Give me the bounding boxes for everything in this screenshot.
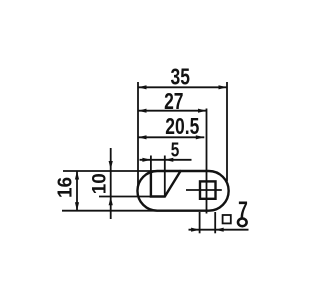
svg-text:20.5: 20.5 xyxy=(165,115,199,140)
dimension line 27 xyxy=(138,110,207,112)
svg-text:10: 10 xyxy=(90,173,111,194)
svg-text:27: 27 xyxy=(164,90,183,115)
notch bottom extension line (y=196.5) for dim 10 xyxy=(99,196,151,198)
digit 6 ring of label xyxy=(238,218,247,226)
bottom extension line (y=210.7) for dim 16 xyxy=(62,210,157,212)
notch recess with slanted wall inside part xyxy=(151,170,181,196)
extension lines below part from square hole edges xyxy=(199,212,201,233)
centerline horizontal of square hole xyxy=(186,189,222,191)
square symbol of label xyxy=(223,215,231,223)
dimension line 5 with outside arrows xyxy=(140,159,192,161)
svg-text:35: 35 xyxy=(170,65,189,90)
top extension line (y=171) for dims 16/10 xyxy=(63,170,157,172)
centerline vertical of square hole / extension for dim 27 xyxy=(206,109,208,214)
svg-text:16: 16 xyxy=(54,177,77,198)
svg-text:5: 5 xyxy=(171,138,180,160)
dimension line 20.5 xyxy=(138,136,204,138)
extension line left (x=138) for dims 35/27/20.5 xyxy=(137,82,139,188)
dimension line 35 xyxy=(138,86,227,88)
svg-text:7: 7 xyxy=(238,198,248,223)
dimension line 16 vertical xyxy=(76,171,78,211)
extension line right (x=227) for dim 35 xyxy=(226,82,228,182)
extension lines for dim 5 (notch edges extended up) xyxy=(150,156,152,172)
part outline: stadium-shaped cam plate xyxy=(137,171,228,211)
square hole xyxy=(200,181,216,198)
dimension line 10 vertical with outside arrows xyxy=(110,148,112,219)
dimension line 7 with outside arrows xyxy=(189,229,249,231)
